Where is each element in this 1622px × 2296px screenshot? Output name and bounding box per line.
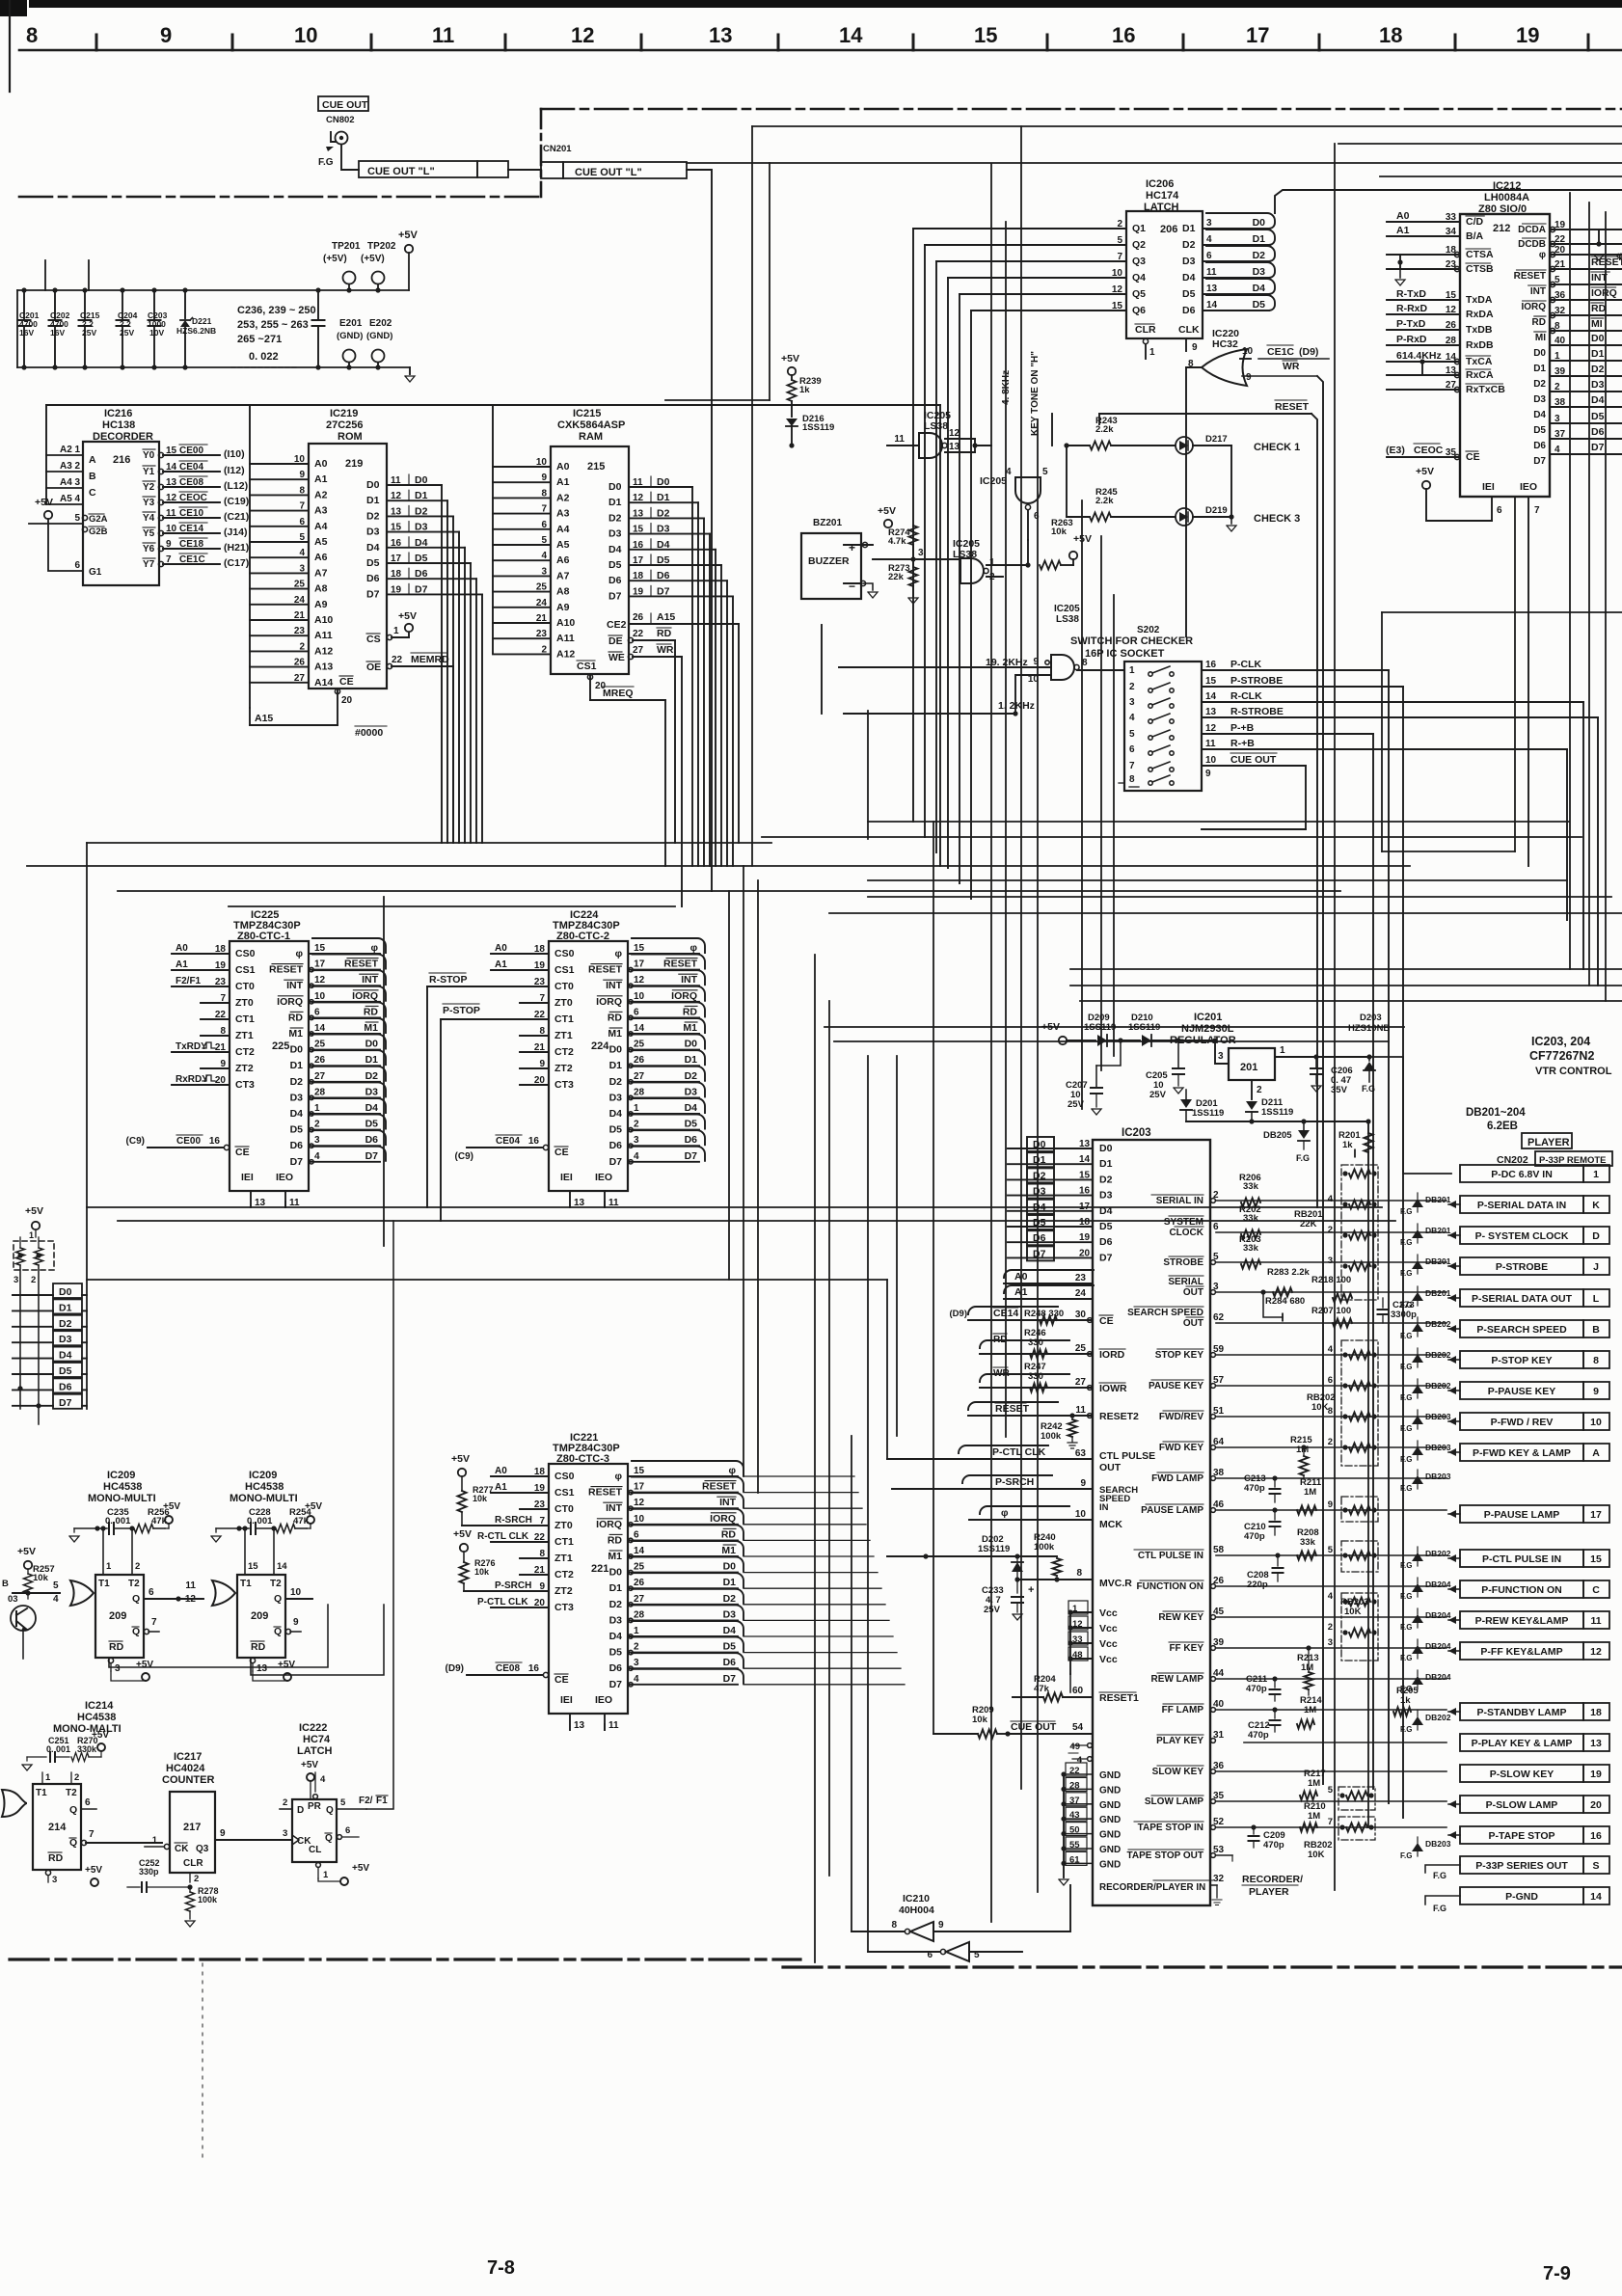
svg-text:1M: 1M: [1308, 1811, 1320, 1822]
svg-text:A12: A12: [314, 645, 333, 657]
IC206 pin 7 Q3: [936, 260, 1126, 262]
diode D216 1SS119: [786, 419, 797, 426]
svg-text:D5: D5: [1182, 288, 1196, 300]
svg-text:A1: A1: [495, 959, 507, 970]
IC217 pin 9 out: [215, 1839, 292, 1841]
svg-text:1: 1: [1280, 1045, 1285, 1056]
IC224 pin 9 ZT2: [520, 1067, 549, 1069]
IC215 pin 24 A9: [493, 607, 551, 608]
IC225 pin 9 ZT2: [201, 1067, 230, 1069]
wire transistor collector: [22, 1631, 24, 1659]
svg-text:PLAYER: PLAYER: [1527, 1137, 1570, 1148]
svg-text:CE: CE: [1466, 451, 1480, 463]
wire bus h: [118, 1220, 1395, 1222]
IC225 pin 27 D2: [309, 1081, 380, 1083]
svg-text:D2: D2: [415, 505, 428, 517]
IC215 pin 25 A8: [493, 591, 551, 593]
svg-text:D1: D1: [415, 490, 428, 501]
svg-text:F.G: F.G: [1400, 1561, 1412, 1570]
svg-text:HC174: HC174: [1146, 190, 1179, 202]
svg-text:DB204: DB204: [1425, 1580, 1451, 1589]
svg-text:(H21): (H21): [224, 542, 249, 554]
wire D6 to bus: [81, 1384, 83, 1386]
svg-text:IORQ: IORQ: [671, 990, 697, 1002]
IC206 pin 9 to IC220: [1185, 338, 1187, 351]
IC203 pin 16 D3: [1008, 1195, 1093, 1197]
wire bus v: [1569, 193, 1571, 969]
net label D3: [13, 1341, 53, 1343]
svg-text:CLOCK: CLOCK: [1169, 1228, 1203, 1238]
svg-text:IEO: IEO: [595, 1172, 612, 1183]
IC221 pin 4 D7: [628, 1684, 738, 1686]
svg-text:E202: E202: [369, 318, 392, 329]
svg-text:CUE OUT: CUE OUT: [1011, 1721, 1057, 1733]
svg-text:MONO-MULTI: MONO-MULTI: [88, 1493, 156, 1504]
svg-text:F.G: F.G: [1400, 1393, 1412, 1402]
wire D0 to bus: [81, 1289, 83, 1291]
svg-text:D1: D1: [1591, 348, 1605, 360]
svg-text:IC219: IC219: [330, 408, 358, 419]
IC225 pin 10 IORQ: [309, 1001, 380, 1003]
svg-text:RESET: RESET: [1275, 401, 1310, 413]
svg-text:+5V: +5V: [305, 1501, 322, 1512]
svg-text:10: 10: [1242, 346, 1254, 357]
wire bus h: [868, 879, 1567, 881]
IC212 pin 12 RxDA: [1387, 313, 1460, 315]
svg-text:D0: D0: [1099, 1143, 1113, 1154]
svg-text:RECORDER/: RECORDER/: [1242, 1874, 1303, 1885]
svg-text:21: 21: [215, 1042, 227, 1053]
gate into IC209 #2: [212, 1580, 235, 1606]
svg-text:IC209: IC209: [107, 1470, 135, 1481]
IC225 pin 19 CS1: [172, 969, 230, 971]
IC216 pin 1 A2: [46, 454, 83, 456]
IC224 pin 2 D5: [628, 1129, 699, 1131]
svg-text:R218 100: R218 100: [1311, 1275, 1351, 1285]
svg-text:217: 217: [183, 1822, 201, 1833]
border top bar: [29, 0, 1622, 8]
svg-text:21: 21: [534, 1565, 546, 1576]
svg-text:MONO-MULTI: MONO-MULTI: [230, 1493, 298, 1504]
svg-text:IORQ: IORQ: [277, 996, 303, 1008]
svg-text:6: 6: [85, 1797, 91, 1808]
connector pin P-SERIAL DATA OUT: [1460, 1289, 1583, 1307]
IC210 inverter B: [946, 1942, 969, 1961]
IC221 pin 26 D1: [628, 1587, 738, 1589]
svg-text:9: 9: [299, 470, 305, 480]
wire bus v: [896, 1056, 898, 1436]
wire inverter B: [868, 1951, 940, 1953]
IC206 pin 12 Q5: [960, 293, 1126, 295]
IC224 pin 17 RESET: [628, 969, 699, 971]
wire IEO down: [1527, 497, 1529, 866]
svg-text:Y1: Y1: [143, 467, 155, 477]
svg-text:3: 3: [918, 548, 924, 558]
svg-text:32: 32: [1213, 1874, 1225, 1884]
net label CUE OUT "L" (right): [541, 162, 563, 178]
wire WR down: [1317, 376, 1323, 1784]
svg-text:D5: D5: [1033, 1217, 1046, 1229]
svg-text:RD: RD: [48, 1852, 64, 1864]
svg-text:A3: A3: [60, 461, 72, 472]
svg-text:STOP KEY: STOP KEY: [1155, 1350, 1204, 1361]
svg-text:14: 14: [277, 1561, 287, 1572]
svg-text:CE: CE: [554, 1147, 569, 1158]
svg-text:D6: D6: [290, 1140, 304, 1151]
IC221 pin 6 RD: [628, 1539, 738, 1541]
svg-text:φ: φ: [728, 1465, 736, 1476]
IC209 pins top: [102, 1528, 104, 1575]
svg-text:IC205: IC205: [980, 475, 1007, 487]
svg-text:220p: 220p: [1247, 1580, 1268, 1590]
svg-text:CS0: CS0: [235, 948, 256, 959]
svg-text:R284 680: R284 680: [1265, 1296, 1305, 1307]
svg-text:A5: A5: [314, 536, 328, 548]
ruler tick: [777, 35, 780, 50]
svg-text:15: 15: [166, 446, 177, 456]
svg-text:D6: D6: [366, 573, 380, 584]
svg-text:18: 18: [1079, 1217, 1091, 1228]
IC224 pin 26 D1: [628, 1065, 699, 1067]
svg-text:100k: 100k: [198, 1895, 218, 1904]
IC209 box: [95, 1575, 144, 1658]
svg-text:A8: A8: [314, 583, 328, 595]
wire CTC1 IEO to CTC2 IEI: [284, 1212, 286, 1214]
svg-text:1M: 1M: [1308, 1778, 1320, 1789]
svg-text:CE18: CE18: [179, 539, 203, 550]
IC225 pin 1 D4: [309, 1113, 380, 1115]
svg-text:A11: A11: [314, 630, 333, 641]
svg-text:D7: D7: [415, 583, 428, 595]
svg-text:BUZZER: BUZZER: [808, 555, 850, 567]
svg-text:11: 11: [633, 477, 643, 488]
svg-text:4: 4: [1328, 1344, 1334, 1355]
wire bus h: [1070, 968, 1622, 970]
IC221 pin 8 ZT1: [520, 1557, 549, 1559]
IC225 pin 8 ZT1: [201, 1035, 230, 1037]
svg-text:13: 13: [255, 1198, 266, 1208]
IC224 pin 28 D3: [628, 1096, 699, 1098]
svg-text:D0: D0: [1533, 348, 1546, 359]
IC203 pin 15 D2: [1008, 1178, 1093, 1180]
svg-text:D2: D2: [1099, 1174, 1113, 1185]
svg-text:28: 28: [1446, 336, 1457, 346]
svg-text:20: 20: [215, 1075, 227, 1086]
svg-text:D0: D0: [290, 1044, 304, 1056]
IC221 pin 1 D4: [628, 1635, 738, 1637]
svg-text:RD: RD: [657, 628, 672, 639]
svg-text:13: 13: [257, 1663, 268, 1674]
svg-text:D4: D4: [608, 544, 622, 555]
svg-text:A1: A1: [176, 959, 188, 970]
svg-text:9: 9: [1080, 1478, 1086, 1489]
svg-text:(GND): (GND): [337, 331, 363, 341]
svg-text:P-STOP: P-STOP: [443, 1005, 480, 1016]
svg-text:13: 13: [1079, 1139, 1091, 1149]
connector pin P-STOP KEY: [1460, 1351, 1583, 1368]
svg-text:8: 8: [1076, 1568, 1082, 1579]
svg-text:100k: 100k: [1041, 1431, 1062, 1442]
svg-text:4: 4: [74, 494, 80, 504]
svg-text:22: 22: [392, 655, 403, 665]
svg-text:2.2k: 2.2k: [1095, 496, 1114, 506]
IC219 pin 9 A1: [250, 478, 309, 480]
svg-text:CTL PULSE IN: CTL PULSE IN: [1138, 1551, 1203, 1561]
IC203 pin 32 stub: [1210, 1884, 1217, 1886]
svg-text:5: 5: [53, 1580, 59, 1591]
svg-text:IC217: IC217: [174, 1751, 202, 1763]
svg-text:9: 9: [1205, 769, 1211, 779]
svg-text:Y7: Y7: [143, 559, 155, 570]
IC212 right pin 37 D6: [1550, 438, 1622, 440]
svg-text:FF KEY: FF KEY: [1169, 1643, 1203, 1654]
svg-text:A1: A1: [314, 473, 328, 485]
svg-text:12: 12: [634, 975, 645, 986]
svg-text:GND: GND: [1099, 1800, 1121, 1811]
svg-text:1: 1: [323, 1870, 329, 1880]
net label CUE OUT "L" (left): [359, 161, 477, 177]
wire play key lamp row: [1244, 1742, 1446, 1743]
svg-text:G2A: G2A: [89, 514, 108, 525]
IC221 pin 10 IORQ: [628, 1524, 738, 1526]
svg-text:219: 219: [345, 458, 363, 470]
svg-text:D1: D1: [685, 1054, 698, 1066]
svg-text:D0: D0: [1033, 1139, 1046, 1150]
svg-text:F.G: F.G: [1400, 1654, 1412, 1662]
svg-text:22: 22: [1069, 1766, 1080, 1776]
bus A horizontal: [46, 404, 940, 406]
svg-text:IC201: IC201: [1194, 1012, 1222, 1023]
svg-text:+5V: +5V: [398, 230, 419, 241]
svg-text:5: 5: [1328, 1545, 1334, 1555]
IC212 right pin 20: [1550, 252, 1554, 257]
svg-text:A2: A2: [314, 489, 328, 500]
ruler tick: [1587, 35, 1590, 50]
svg-text:HC4538: HC4538: [77, 1712, 116, 1723]
svg-text:15: 15: [1112, 301, 1123, 311]
IC224 pin 12 INT: [628, 985, 699, 986]
wire inv feed left: [59, 1424, 61, 1931]
IC216 pin 12 CEOC: [158, 500, 163, 504]
svg-text:2: 2: [1117, 219, 1122, 230]
IC221 pin 22 CT1: [491, 1541, 549, 1543]
svg-text:10: 10: [290, 1587, 302, 1598]
svg-text:21: 21: [534, 1042, 546, 1053]
diode DB203: [1417, 1441, 1419, 1446]
svg-text:4: 4: [1554, 445, 1560, 455]
svg-text:D221: D221: [192, 316, 212, 326]
IC214 pins top: [41, 1772, 43, 1784]
svg-text:(I12): (I12): [224, 465, 245, 476]
IC221 pin 23 CT0: [520, 1508, 549, 1510]
svg-text:HC32: HC32: [1212, 338, 1238, 350]
svg-text:CS1: CS1: [554, 964, 575, 976]
label PLAYER: [1522, 1133, 1572, 1148]
wire RAM D1 drop: [697, 502, 699, 866]
svg-text:22: 22: [1554, 234, 1566, 245]
svg-text:10: 10: [1590, 1417, 1602, 1428]
diode DB203: [1417, 1837, 1419, 1843]
svg-text:13: 13: [1205, 707, 1217, 717]
svg-text:A7: A7: [314, 567, 328, 579]
svg-text:0. 022: 0. 022: [249, 351, 279, 363]
svg-text:8: 8: [539, 1549, 545, 1559]
svg-text:330p: 330p: [139, 1867, 159, 1877]
svg-text:13: 13: [574, 1720, 585, 1731]
svg-text:LS38: LS38: [924, 420, 948, 432]
connector pin P- SYSTEM CLOCK: [1460, 1227, 1583, 1244]
transistor Q203: [11, 1606, 36, 1631]
svg-text:58: 58: [1213, 1545, 1225, 1555]
svg-text:2: 2: [1328, 1622, 1333, 1633]
svg-text:33k: 33k: [1243, 1181, 1259, 1192]
svg-text:12: 12: [1590, 1646, 1602, 1658]
svg-text:D3: D3: [609, 1092, 623, 1103]
IC219 pin 27 A14: [250, 682, 309, 684]
IC225 pin 3 D6: [309, 1145, 380, 1147]
svg-text:9: 9: [293, 1617, 299, 1628]
wire IC221 continues: [743, 1524, 866, 1526]
svg-text:10: 10: [314, 991, 326, 1002]
svg-text:CUE OUT "L": CUE OUT "L": [575, 167, 642, 178]
svg-text:D7: D7: [723, 1673, 737, 1685]
IC225 pin 17 RESET: [309, 969, 380, 971]
svg-text:7-9: 7-9: [1543, 2263, 1571, 2284]
svg-text:DB204: DB204: [1425, 1672, 1451, 1682]
IC222 pin 6: [338, 1835, 342, 1840]
svg-text:Q: Q: [274, 1626, 282, 1637]
svg-text:A0: A0: [556, 461, 570, 473]
svg-text:−: −: [849, 580, 855, 593]
svg-text:F.G: F.G: [1296, 1153, 1310, 1163]
svg-text:20: 20: [1079, 1248, 1091, 1258]
svg-text:R-CLK: R-CLK: [1230, 690, 1262, 702]
svg-text:25V: 25V: [1068, 1099, 1085, 1110]
svg-text:A4: A4: [314, 521, 328, 532]
svg-text:D3: D3: [1591, 379, 1605, 391]
svg-text:DB203: DB203: [1425, 1472, 1451, 1481]
resistor network box: [1341, 1541, 1378, 1572]
dash-dot boundary left: [19, 196, 541, 199]
gate into IC209 #1: [70, 1580, 94, 1606]
svg-text:15: 15: [974, 23, 997, 47]
svg-text:D1: D1: [59, 1302, 72, 1313]
svg-text:+5V: +5V: [25, 1205, 43, 1217]
wire loop under IC209 A: [109, 1605, 328, 1667]
svg-text:13: 13: [949, 442, 960, 452]
IC203 pin 8 MVC.R: [1056, 1576, 1058, 1580]
wire mesh corner pieces: [665, 399, 770, 401]
svg-text:10K: 10K: [1344, 1607, 1362, 1617]
svg-text:D0: D0: [608, 481, 622, 493]
svg-text:A15: A15: [657, 611, 675, 623]
svg-text:D6: D6: [365, 1134, 379, 1146]
svg-text:+5V: +5V: [453, 1528, 472, 1540]
svg-text:Y2: Y2: [143, 482, 155, 493]
svg-text:φ: φ: [370, 942, 378, 954]
svg-text:MCK: MCK: [1099, 1519, 1122, 1530]
svg-text:20: 20: [1590, 1799, 1602, 1811]
svg-text:GND: GND: [1099, 1815, 1121, 1825]
svg-text:IC215: IC215: [573, 408, 601, 419]
svg-text:10k: 10k: [474, 1567, 490, 1577]
svg-text:Q: Q: [69, 1837, 77, 1849]
svg-text:IC214: IC214: [85, 1700, 114, 1712]
svg-text:M1: M1: [608, 1551, 622, 1562]
svg-text:15: 15: [248, 1561, 258, 1572]
svg-text:24: 24: [1075, 1288, 1087, 1299]
svg-text:Y5: Y5: [143, 528, 155, 539]
svg-text:P-DC 6.8V IN: P-DC 6.8V IN: [1491, 1169, 1553, 1180]
svg-text:D5: D5: [290, 1124, 304, 1136]
svg-text:13: 13: [166, 477, 177, 488]
svg-text:8: 8: [539, 1026, 545, 1037]
connector pin P-TAPE STOP: [1460, 1826, 1583, 1844]
svg-text:7: 7: [89, 1829, 95, 1840]
svg-text:D3: D3: [1033, 1186, 1046, 1198]
capacitor C204: [122, 290, 123, 320]
IC219 pin 4 A6: [250, 556, 309, 558]
svg-text:D4: D4: [290, 1108, 304, 1120]
resistor network box: [1341, 1340, 1378, 1466]
svg-text:16: 16: [209, 1136, 221, 1147]
IC225 pin 7 ZT0: [201, 1002, 230, 1004]
svg-text:10k: 10k: [1051, 527, 1068, 537]
IC212 pin 19-22 link: [1581, 229, 1596, 230]
svg-text:IORQ: IORQ: [596, 1519, 622, 1530]
wire MEMRD drop: [452, 666, 454, 843]
svg-text:5: 5: [74, 513, 80, 524]
svg-text:IC216: IC216: [104, 408, 132, 419]
IC212 right pin 39 D2: [1550, 375, 1622, 377]
svg-text:D219: D219: [1205, 505, 1228, 516]
svg-text:IORQ: IORQ: [352, 990, 378, 1002]
svg-text:P-CTL CLK: P-CTL CLK: [477, 1597, 528, 1607]
wire D5 to bus: [81, 1368, 83, 1370]
svg-text:D3: D3: [609, 1614, 623, 1626]
svg-text:+5V: +5V: [398, 610, 417, 622]
svg-text:18: 18: [534, 1467, 546, 1477]
IC217 pin 2 bottom: [189, 1873, 191, 1882]
IC212 right pin 36 IORQ: [1550, 297, 1554, 302]
svg-text:43: 43: [1069, 1810, 1080, 1821]
IC221 pin 17 RESET: [628, 1492, 738, 1494]
svg-text:A1: A1: [1014, 1286, 1028, 1298]
wire bus v: [1037, 419, 1039, 1892]
svg-text:28: 28: [314, 1087, 326, 1097]
svg-text:F.G: F.G: [1400, 1623, 1412, 1632]
svg-text:D5: D5: [608, 559, 622, 571]
wire bus v: [1381, 612, 1383, 851]
svg-text:Q: Q: [132, 1626, 140, 1637]
svg-text:A5: A5: [556, 539, 570, 551]
zener D221 HZS6.2NB: [184, 290, 186, 318]
svg-text:LATCH: LATCH: [297, 1745, 333, 1757]
IC206 pin 5 Q2: [925, 244, 1126, 246]
svg-text:F.G: F.G: [1400, 1725, 1412, 1734]
svg-text:GND: GND: [1099, 1785, 1121, 1796]
IC203 pin 20 D7: [1008, 1256, 1093, 1258]
svg-text:CF77267N2: CF77267N2: [1529, 1049, 1594, 1063]
wire MREQ: [590, 699, 665, 701]
svg-text:RESET: RESET: [663, 959, 698, 970]
svg-text:3: 3: [115, 1663, 121, 1674]
svg-text:CS1: CS1: [577, 661, 597, 672]
wire check feed: [1066, 446, 1068, 517]
svg-text:20: 20: [534, 1598, 546, 1608]
regulator pin 2: [1251, 1080, 1253, 1099]
ruler tick: [1318, 35, 1321, 50]
